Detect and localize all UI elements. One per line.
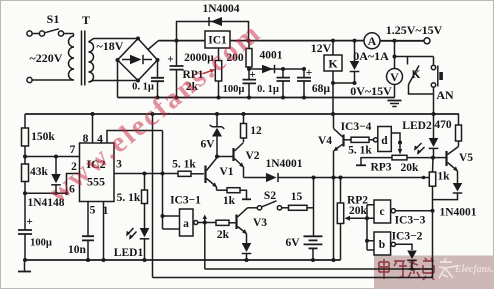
svg-text:12: 12 xyxy=(250,125,262,137)
svg-text:www.elecfans.com: www.elecfans.com xyxy=(42,16,267,209)
svg-text:470: 470 xyxy=(434,119,452,131)
resistor 5.1k (V1 base) xyxy=(172,159,204,177)
junction node A-V xyxy=(393,39,397,43)
svg-text:68µ: 68µ xyxy=(312,83,331,95)
svg-text:4001: 4001 xyxy=(260,50,283,62)
capacitor 100u (timer) xyxy=(18,193,52,260)
wire pin 4 xyxy=(107,131,163,144)
wire relay node down to mid rail xyxy=(332,83,334,114)
svg-text:6V: 6V xyxy=(285,237,300,249)
svg-text:V: V xyxy=(390,70,399,84)
svg-text:0A~1A: 0A~1A xyxy=(353,49,389,63)
diode below V5 xyxy=(433,183,463,200)
svg-text:V2: V2 xyxy=(245,150,259,162)
resistor 15 xyxy=(282,191,314,210)
svg-text:V3: V3 xyxy=(253,217,267,229)
svg-text:+: + xyxy=(26,216,33,228)
svg-text:IC3−4: IC3−4 xyxy=(341,121,372,133)
svg-text:8: 8 xyxy=(83,133,89,145)
node wire 12V feed xyxy=(249,67,304,69)
diode 4001 xyxy=(260,50,283,74)
output terminal xyxy=(424,38,430,44)
wire pin 1 xyxy=(103,202,105,261)
svg-text:1N4004: 1N4004 xyxy=(202,3,239,15)
svg-text:Elecfans.com: Elecfans.com xyxy=(454,264,494,275)
gate IC3-2 b xyxy=(367,231,423,256)
switch S1 xyxy=(27,12,74,36)
svg-text:+: + xyxy=(249,69,256,81)
svg-text:~18V: ~18V xyxy=(97,39,124,53)
capacitor 68u xyxy=(297,67,330,98)
svg-text:A: A xyxy=(368,34,377,48)
lower return rail C xyxy=(153,277,433,279)
node wire 555 threshold xyxy=(23,155,80,159)
svg-text:T: T xyxy=(82,13,90,27)
svg-text:IC3−1: IC3−1 xyxy=(170,195,201,207)
wire pin 3 output xyxy=(114,172,178,176)
resistor 1k (V5 base) xyxy=(429,158,450,211)
svg-text:10n: 10n xyxy=(68,244,87,256)
gate IC3-1 xyxy=(161,195,217,237)
ground rail (logic) xyxy=(25,259,341,261)
LED2 xyxy=(402,114,438,160)
relay contact K xyxy=(408,57,434,95)
potentiometer RP1 xyxy=(182,48,221,98)
svg-text:12V: 12V xyxy=(311,41,332,55)
svg-text:b: b xyxy=(379,239,385,251)
svg-text:AN: AN xyxy=(436,88,454,102)
battery 6V xyxy=(285,236,322,260)
gate input bus xyxy=(365,205,369,250)
relay K coil xyxy=(324,39,355,85)
transistor V4 xyxy=(318,114,344,260)
svg-text:5. 1k: 5. 1k xyxy=(172,159,196,171)
IC2 555 timer xyxy=(69,133,122,217)
capacitor 2000u xyxy=(167,41,214,98)
mid distribution rail xyxy=(25,113,459,115)
node wire pin6 loop xyxy=(23,174,80,196)
svg-text:IC3−2: IC3−2 xyxy=(392,231,423,243)
svg-text:c: c xyxy=(379,206,384,218)
wire bridge left to ground rail xyxy=(117,60,119,98)
resistor 12 xyxy=(241,114,263,142)
svg-text:1N4001: 1N4001 xyxy=(265,158,302,170)
svg-text:V5: V5 xyxy=(459,152,473,164)
svg-text:+: + xyxy=(306,67,313,79)
lower return rail B xyxy=(205,268,433,270)
chassis ground below V xyxy=(388,101,402,107)
node IC3-3 output xyxy=(431,209,435,213)
svg-text:LED2: LED2 xyxy=(402,120,432,132)
gate IC3-3 c xyxy=(367,200,433,227)
svg-text:1N4001: 1N4001 xyxy=(439,207,476,219)
wire pin 4 down to gate a xyxy=(162,131,164,230)
positive rail xyxy=(159,40,365,42)
transistor V2 xyxy=(217,143,260,178)
ground symbol left xyxy=(18,260,31,272)
transformer T xyxy=(69,13,94,86)
resistor 2k xyxy=(216,220,237,241)
svg-text:20k: 20k xyxy=(401,162,420,174)
svg-text:0V~15V: 0V~15V xyxy=(350,84,392,98)
resistor 200 xyxy=(226,41,252,67)
svg-text:~220V: ~220V xyxy=(30,51,63,65)
svg-text:1k: 1k xyxy=(437,171,450,183)
svg-text:100µ: 100µ xyxy=(30,238,52,249)
wire secondary bottom to bridge xyxy=(89,81,139,83)
transistor V5 xyxy=(433,147,473,184)
svg-text:IC3−3: IC3−3 xyxy=(395,215,426,227)
svg-text:K: K xyxy=(412,69,421,81)
svg-text:V1: V1 xyxy=(219,166,233,178)
flyback diode xyxy=(350,39,360,85)
potentiometer RP2 xyxy=(337,178,368,261)
wire bridge to rail xyxy=(148,41,159,50)
bridge rectifier xyxy=(116,37,160,83)
gate IC3-4 d xyxy=(374,127,403,155)
svg-text:RP3: RP3 xyxy=(370,162,391,174)
svg-text:1.25V~15V: 1.25V~15V xyxy=(386,23,443,37)
svg-text:5: 5 xyxy=(90,205,96,217)
resistor 43k xyxy=(22,157,49,194)
wire node down right column xyxy=(432,211,434,278)
svg-text:S1: S1 xyxy=(47,12,60,26)
capacitor 10n xyxy=(68,202,94,261)
regulator IC1 xyxy=(205,31,230,48)
svg-text:20k: 20k xyxy=(349,205,368,217)
voltmeter V xyxy=(387,41,403,98)
wire gate a output down xyxy=(204,223,206,270)
svg-text:2k: 2k xyxy=(217,229,230,241)
diode 1N4004 bypass xyxy=(175,3,251,43)
resistor 1k (V1 emitter) xyxy=(217,188,252,207)
svg-text:100µ: 100µ xyxy=(223,84,245,95)
svg-text:V4: V4 xyxy=(318,135,332,147)
svg-text:0. 1µ: 0. 1µ xyxy=(257,84,279,95)
svg-text:0. 1µ: 0. 1µ xyxy=(132,82,154,93)
wire to K contact and AN xyxy=(393,55,434,59)
svg-text:a: a xyxy=(183,218,189,230)
svg-text:5. 1k: 5. 1k xyxy=(348,145,372,157)
potentiometer RP3 xyxy=(356,155,433,174)
svg-text:6V: 6V xyxy=(200,139,215,151)
wire pin 8 xyxy=(92,114,94,143)
diode 1N4001 (V2 emitter) xyxy=(244,158,429,182)
transistor V3 xyxy=(237,208,268,243)
resistor 5.1k (V4 base) xyxy=(344,137,374,156)
wire secondary top to bridge xyxy=(89,39,139,43)
resistor 470 xyxy=(434,114,461,147)
diode below gate b xyxy=(407,251,417,271)
zener 6V xyxy=(200,114,224,159)
capacitor 100u xyxy=(223,67,256,98)
diode 1N4148 xyxy=(27,157,64,210)
ammeter A xyxy=(364,33,380,49)
svg-text:150k: 150k xyxy=(31,131,55,143)
svg-text:1k: 1k xyxy=(223,195,236,207)
wire S2 branch up xyxy=(313,178,315,237)
capacitor 0.1u (second) xyxy=(257,67,290,98)
svg-text:43k: 43k xyxy=(30,166,49,178)
svg-text:S2: S2 xyxy=(264,190,276,202)
diode below V3 xyxy=(242,243,252,260)
resistor 5.1k (LED1) xyxy=(117,174,148,229)
svg-text:7: 7 xyxy=(70,144,76,156)
ground rail (power) xyxy=(118,97,395,99)
resistor 150k xyxy=(22,114,56,157)
svg-text:5. 1k: 5. 1k xyxy=(117,192,141,204)
transistor V1 xyxy=(206,158,234,191)
svg-text:15: 15 xyxy=(291,191,303,203)
svg-text:LED1: LED1 xyxy=(114,247,144,259)
LED1 xyxy=(114,228,150,260)
left vertical bus xyxy=(152,114,154,278)
switch S2 xyxy=(248,190,282,210)
svg-text:+: + xyxy=(167,54,174,66)
svg-text:d: d xyxy=(381,135,388,147)
pushbutton AN xyxy=(431,57,454,115)
svg-text:K: K xyxy=(328,57,338,71)
mains lower terminal xyxy=(27,77,74,82)
capacitor 0.1u (bridge) xyxy=(132,60,164,98)
